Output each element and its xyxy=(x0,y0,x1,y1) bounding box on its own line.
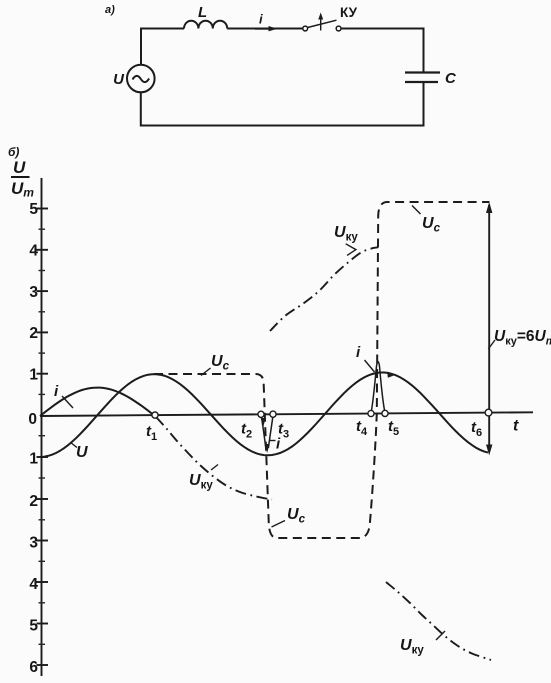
svg-text:1: 1 xyxy=(29,367,38,384)
node t1 xyxy=(146,412,158,443)
label Uc bottom with leader xyxy=(272,506,306,527)
svg-text:4: 4 xyxy=(29,243,38,260)
label Uку mid-left with leader xyxy=(189,465,218,492)
svg-text:4: 4 xyxy=(29,576,38,593)
voltage source U xyxy=(113,65,154,93)
curve Uку segment 1 (dash-dot, after t1) xyxy=(156,417,272,500)
svg-text:5: 5 xyxy=(29,201,38,218)
svg-text:0: 0 xyxy=(28,411,37,428)
node t2 xyxy=(241,411,264,440)
current spike up at t4-t5 xyxy=(371,362,385,413)
svg-text:6: 6 xyxy=(29,659,38,676)
label Uку top-mid with leader xyxy=(334,224,358,255)
svg-text:L: L xyxy=(198,4,207,21)
wire inductor to switch xyxy=(227,28,303,30)
y-axis xyxy=(41,178,43,676)
svg-text:5: 5 xyxy=(29,618,38,635)
t-axis xyxy=(40,412,533,416)
y-axis major ticks xyxy=(37,209,49,666)
arrowhead on U curve near t5 xyxy=(387,372,393,378)
y-axis minor half ticks xyxy=(39,229,46,644)
svg-text:i: i xyxy=(259,12,263,27)
curve i (solid current half-sine) xyxy=(40,388,154,416)
label Uку bottom-right with leader xyxy=(400,631,445,657)
label Uc mid with leader xyxy=(201,353,230,376)
svg-text:U: U xyxy=(76,444,88,461)
wire switch to capacitor xyxy=(341,29,424,72)
svg-text:3: 3 xyxy=(29,535,38,552)
current arrow i xyxy=(255,12,278,32)
curve Uку segment 3 (dash-dot, bottom right after t5) xyxy=(386,582,491,660)
curve Uку segment 2 (dash-dot, rising t3 to t4) xyxy=(270,247,378,331)
node t5 xyxy=(382,410,399,438)
y-axis label U/Um fraction xyxy=(11,158,34,200)
inductor L xyxy=(184,4,227,29)
node t6 xyxy=(471,409,492,439)
y-axis scale labels xyxy=(28,201,38,676)
svg-text:Uку=6Um: Uку=6Um xyxy=(494,328,551,348)
label i with leader xyxy=(54,383,73,408)
dimension arrow Uку=6Um xyxy=(486,202,551,456)
label U with leader xyxy=(71,443,89,462)
svg-text:б): б) xyxy=(8,145,19,159)
label i for up spike with leader xyxy=(356,344,375,372)
curve Uc (dashed capacitor voltage) xyxy=(154,202,490,538)
curve U (solid supply sine) xyxy=(40,373,488,458)
svg-text:C: C xyxy=(445,70,457,87)
svg-text:t: t xyxy=(513,418,519,435)
switch КУ (controlled gap) xyxy=(303,5,358,31)
label -i for down spike xyxy=(269,436,281,453)
svg-text:КУ: КУ xyxy=(340,5,358,20)
capacitor C xyxy=(405,70,457,87)
svg-text:2: 2 xyxy=(29,493,38,510)
label Uc top with leader xyxy=(412,206,441,235)
wire top-left segment xyxy=(141,29,184,66)
svg-text:1: 1 xyxy=(29,451,38,468)
svg-text:3: 3 xyxy=(29,284,38,301)
svg-text:a): a) xyxy=(105,4,115,16)
svg-text:2: 2 xyxy=(29,325,38,342)
svg-text:U: U xyxy=(13,158,26,177)
node t3 xyxy=(270,411,289,440)
node t4 xyxy=(356,410,374,438)
wire capacitor to bottom and back to source xyxy=(141,83,424,126)
current spike down at t2-t3 xyxy=(261,417,273,453)
svg-text:U: U xyxy=(113,71,125,88)
